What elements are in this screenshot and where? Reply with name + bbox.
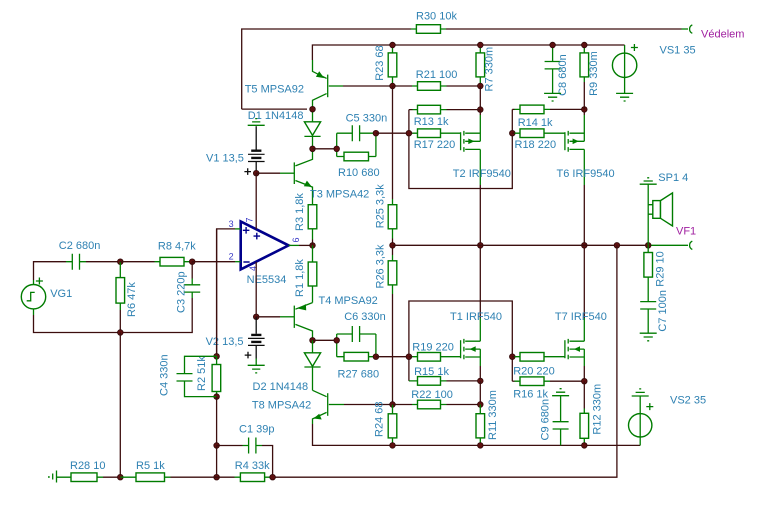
op-amp U1 NE5534 <box>241 222 289 287</box>
node C5/R10 left <box>334 146 340 152</box>
resistor R23 68 <box>374 45 397 86</box>
resistor R11 330m <box>476 390 499 445</box>
wire R25 column from T5 base node <box>392 86 394 199</box>
node C8 top on V+ rail <box>550 42 556 48</box>
wire top rail from T5 collector loop to R30 <box>242 29 411 109</box>
wire T8 emitter to negative rail <box>313 424 641 445</box>
svg-text:T4 MPSA92: T4 MPSA92 <box>319 295 378 307</box>
node R23 top on V+ rail <box>390 42 396 48</box>
wire R2 bottom to C1 node <box>216 397 218 446</box>
svg-text:C4 330n: C4 330n <box>159 354 171 396</box>
ground flag above battery V1 <box>248 119 265 126</box>
node bus R19 left <box>406 354 412 360</box>
wire drive node to R17/R13 bus <box>376 132 409 134</box>
resistor R18 220 <box>512 129 565 151</box>
resistor R26 3,3k <box>375 244 397 294</box>
svg-text:T1 IRF540: T1 IRF540 <box>450 311 502 323</box>
node opamp output / R3 / R1 <box>310 243 316 249</box>
ground below VS1 <box>616 93 633 101</box>
node R4 right / C1 / feedback <box>270 474 276 480</box>
svg-text:VG1: VG1 <box>50 288 72 300</box>
svg-text:R24 68: R24 68 <box>374 402 386 437</box>
wire T7 source node to R12 <box>583 381 585 408</box>
wire VG1 bottom ground loop <box>34 298 193 333</box>
node R2 top / C4 <box>214 354 220 360</box>
svg-text:R17 220: R17 220 <box>414 139 456 151</box>
wire opamp pin3 to feedback column <box>217 229 241 356</box>
svg-text:R12 330m: R12 330m <box>592 384 604 435</box>
svg-text:R6 47k: R6 47k <box>126 282 138 317</box>
transistor T8 <box>252 390 344 424</box>
svg-text:VS1 35: VS1 35 <box>660 44 696 56</box>
speaker SP1 4 <box>648 172 688 245</box>
svg-text:R13 1k: R13 1k <box>414 116 449 128</box>
wire R26 bottom to T8 base node <box>392 294 394 405</box>
source VS1 35 <box>612 44 695 93</box>
svg-text:6: 6 <box>291 237 301 242</box>
node T7 drain on output rail <box>582 243 588 249</box>
node bus R20 left <box>510 354 516 360</box>
svg-text:VS2 35: VS2 35 <box>670 395 706 407</box>
node R6 bottom / ground rail / R28 column <box>118 330 124 336</box>
svg-text:T2 IRF9540: T2 IRF9540 <box>453 168 511 180</box>
capacitor C7 100n <box>640 290 669 333</box>
svg-text:R8 4,7k: R8 4,7k <box>158 241 196 253</box>
node R22 right / R11 top <box>478 402 484 408</box>
wire T5 base to R23/R21 node <box>343 85 393 87</box>
svg-text:R11 330m: R11 330m <box>487 390 499 440</box>
output rail <box>393 244 649 246</box>
capacitor C9 680n <box>540 396 569 446</box>
svg-text:C2 680n: C2 680n <box>59 240 101 252</box>
svg-text:R15 1k: R15 1k <box>414 366 449 378</box>
resistor R22 100 <box>393 389 481 409</box>
svg-text:R18 220: R18 220 <box>515 139 557 151</box>
node T5 base / R23 / R21 / R25 <box>390 83 396 89</box>
wire R26 column from output rail to T8 base node <box>392 245 394 255</box>
wire lead into Vedelem terminal <box>682 28 689 30</box>
wire R6 node down to R28 node <box>119 333 121 478</box>
node T7 source / R16 right <box>582 378 588 384</box>
ground flag above C9 <box>552 389 569 396</box>
wire T2 drain to output rail <box>479 185 481 245</box>
svg-text:T6 IRF9540: T6 IRF9540 <box>557 168 615 180</box>
wire lower drive node to R19 bus <box>376 356 409 358</box>
node C6/R27 left <box>334 338 340 344</box>
node T4 collector / D2 anode <box>310 338 316 344</box>
svg-text:7: 7 <box>245 217 255 222</box>
node C5/R10 right drive <box>373 130 379 136</box>
node V1 plus / T3 base / opamp pin7 <box>253 170 259 176</box>
svg-text:Védelem: Védelem <box>701 28 744 40</box>
resistor R25 3,3k <box>375 184 397 239</box>
node speaker / R29 on output rail <box>645 243 651 249</box>
wire gate drive bus T2 side <box>409 109 512 188</box>
transistor T3 <box>256 149 369 205</box>
wire opamp pin6 output <box>289 244 313 246</box>
svg-text:C1 39p: C1 39p <box>239 424 274 436</box>
svg-text:R9 330m: R9 330m <box>588 51 600 96</box>
resistor R4 33k <box>217 460 273 482</box>
wire T6 drain to output rail <box>583 185 585 245</box>
svg-text:V2 13,5: V2 13,5 <box>206 336 244 348</box>
wire R6 bottom to ground rail <box>119 310 121 333</box>
svg-text:R7 330m: R7 330m <box>484 47 496 92</box>
node T8 base / R24 / R22 / R26 <box>390 402 396 408</box>
resistor R20 220 <box>512 353 565 378</box>
svg-text:R1 1,8k: R1 1,8k <box>294 259 306 297</box>
svg-text:R14 1k: R14 1k <box>518 117 553 129</box>
terminal VF1 <box>690 241 693 249</box>
wire feedback column to R2 <box>216 229 218 356</box>
svg-text:C6 330n: C6 330n <box>344 311 386 323</box>
capacitor C2 680n <box>59 240 101 270</box>
terminal Vedelem <box>690 25 693 33</box>
node bus R18 left <box>510 130 516 136</box>
wire R25 bottom to output rail <box>392 239 394 246</box>
battery V2 13,5 <box>206 317 265 359</box>
svg-text:R25 3,3k: R25 3,3k <box>375 184 387 229</box>
svg-text:VF1: VF1 <box>676 226 696 238</box>
wire C1 node to R4 node <box>216 446 218 478</box>
capacitor C6 330n with R27 loop <box>337 311 386 357</box>
node D1 cathode / T3 collector <box>310 146 316 152</box>
svg-text:R23 68: R23 68 <box>374 45 386 80</box>
resistor R1 1,8k <box>294 245 317 302</box>
svg-text:R21 100: R21 100 <box>416 69 458 81</box>
svg-text:T8 MPSA42: T8 MPSA42 <box>252 399 311 411</box>
node T1 drain on output rail <box>478 243 484 249</box>
resistor R21 100 <box>393 69 481 90</box>
node T6 source / R14 right <box>582 107 588 113</box>
node C6/R27 right drive <box>373 354 379 360</box>
node R9 top on V+ rail <box>582 42 588 48</box>
svg-text:T3 MPSA42: T3 MPSA42 <box>310 189 369 201</box>
node T5 collector / D1 anode <box>310 106 316 112</box>
resistor R9 330m <box>580 45 600 96</box>
svg-text:C3 220p: C3 220p <box>176 271 188 313</box>
svg-text:3: 3 <box>229 219 234 229</box>
node R7 top on V+ rail <box>478 42 484 48</box>
capacitor C5 330n with R10 loop <box>337 112 387 156</box>
source VG1 <box>21 278 72 316</box>
resistor R17 220 <box>409 129 461 151</box>
capacitor C8 680n <box>545 45 569 96</box>
svg-text:T5 MPSA92: T5 MPSA92 <box>245 83 304 95</box>
capacitor C1 39p <box>217 424 275 478</box>
svg-text:R16 1k: R16 1k <box>513 389 548 401</box>
capacitor C4 330n <box>159 354 217 396</box>
resistor R24 68 <box>374 402 397 446</box>
svg-text:R29 10: R29 10 <box>655 251 667 286</box>
node output rail / R25 / R26 <box>390 243 396 249</box>
svg-text:R4 33k: R4 33k <box>235 460 270 472</box>
svg-text:R28 10: R28 10 <box>70 460 105 472</box>
ground flag above speaker SP1 <box>640 178 657 184</box>
resistor R2 51k <box>196 356 221 397</box>
resistor R10 680 <box>337 152 380 179</box>
node R2 bottom / C4 <box>214 394 220 400</box>
ground below V2 <box>248 359 265 373</box>
svg-text:R30 10k: R30 10k <box>416 11 457 23</box>
svg-text:R20 220: R20 220 <box>513 366 555 378</box>
node R28 right / R6 column / R5 left <box>118 474 124 480</box>
wire gate drive bus T1 side <box>409 301 512 381</box>
wire opamp pin4 to V2 <box>255 262 257 317</box>
resistor R3 1,8k <box>294 193 317 246</box>
wire VG1 top to C2 <box>34 262 67 280</box>
transistor T4 <box>256 295 378 341</box>
wire top rail R30 to Vedelem terminal <box>446 28 682 30</box>
node R4 left / R5 right <box>214 474 220 480</box>
wire C2 to R6/R8 node <box>86 261 120 263</box>
mosfet T2 IRF9540 <box>453 110 511 185</box>
wire T1 source node to R22 node <box>479 381 481 405</box>
wire T8 base to R24/R22 node <box>344 404 393 406</box>
svg-text:C5 330n: C5 330n <box>346 112 388 124</box>
mosfet T1 IRF540 <box>450 245 502 381</box>
ground below C7 <box>640 333 657 341</box>
wire R9 bottom to T6 source node <box>583 82 585 109</box>
ground below C8 <box>544 93 561 101</box>
svg-text:R2 51k: R2 51k <box>196 356 208 391</box>
node R24 bottom on negative rail <box>390 443 396 449</box>
diode D2 1N4148 <box>253 340 321 393</box>
capacitor C3 220p <box>176 262 201 313</box>
node feedback tap on output rail <box>614 243 620 249</box>
wire output rail to VF1 terminal <box>648 244 688 246</box>
node R8 right / opamp pin2 / C3 <box>189 259 195 265</box>
wire opamp pin2 to R8 node <box>192 261 241 263</box>
resistor R13 1k <box>409 105 480 128</box>
node C1 left <box>214 443 220 449</box>
mosfet T6 IRF9540 <box>557 109 615 185</box>
resistor R16 1k <box>512 377 584 401</box>
svg-text:R19 220: R19 220 <box>412 342 454 354</box>
svg-text:R5 1k: R5 1k <box>136 460 165 472</box>
battery V1 13,5 <box>206 126 265 175</box>
resistor R30 <box>411 11 457 34</box>
svg-text:V1 13,5: V1 13,5 <box>206 152 244 164</box>
wire T4 collector node to C6/R27 <box>313 339 337 341</box>
resistor R29 10 <box>644 245 667 301</box>
resistor R5 1k <box>120 460 216 482</box>
wire opamp pin7 to V1 <box>255 173 257 229</box>
svg-text:T7 IRF540: T7 IRF540 <box>555 311 607 323</box>
resistor R8 4,7k <box>120 241 196 266</box>
svg-text:R3 1,8k: R3 1,8k <box>294 193 306 231</box>
node C2 / R6 / R8 <box>118 259 124 265</box>
resistor R14 1k <box>512 105 584 129</box>
resistor R15 1k <box>409 366 480 385</box>
diode D1 1N4148 <box>248 109 321 149</box>
wire feedback from output rail to R4 <box>273 245 617 477</box>
resistor R27 680 <box>337 352 379 380</box>
resistor R6 47k <box>116 262 138 317</box>
svg-text:D1 1N4148: D1 1N4148 <box>248 110 304 122</box>
ground at input return <box>49 471 57 483</box>
svg-text:NE5534: NE5534 <box>247 274 287 286</box>
svg-text:R10 680: R10 680 <box>338 167 380 179</box>
svg-text:D2 1N4148: D2 1N4148 <box>253 381 309 393</box>
wire R7 to T2 source node <box>479 86 481 110</box>
wire T5 collector node to top rail <box>242 108 307 110</box>
svg-text:C7 100n: C7 100n <box>657 290 669 332</box>
svg-text:R26 3,3k: R26 3,3k <box>375 244 387 289</box>
resistor R28 10 <box>57 460 121 482</box>
node R11 bottom on negative rail <box>478 443 484 449</box>
resistor R12 330m <box>580 384 604 446</box>
transistor T5 <box>245 60 343 109</box>
ground flag above VS2 <box>632 389 649 396</box>
resistor R7 330m <box>476 45 496 92</box>
node R12 bottom on negative rail <box>582 443 588 449</box>
svg-text:R27 680: R27 680 <box>338 369 380 381</box>
node T1 source / R15 right <box>478 378 484 384</box>
svg-text:2: 2 <box>229 251 234 261</box>
node bus R17 left <box>406 130 412 136</box>
source VS2 35 <box>629 395 707 446</box>
svg-text:R22 100: R22 100 <box>411 389 453 401</box>
resistor R19 220 <box>409 342 461 361</box>
svg-text:C9 680n: C9 680n <box>540 399 552 441</box>
wire positive rail V+ from T5 emitter to VS1 <box>312 45 624 60</box>
wire D1 node to C5/R10 <box>313 148 337 150</box>
node R7 bottom / R21 right <box>478 83 484 89</box>
node T2 source / R13 right <box>478 107 484 113</box>
node V2 top / T4 base / opamp pin4 <box>253 314 259 320</box>
mosfet T7 IRF540 <box>555 245 607 381</box>
svg-text:C8 680n: C8 680n <box>557 54 569 96</box>
svg-text:SP1 4: SP1 4 <box>658 172 688 184</box>
